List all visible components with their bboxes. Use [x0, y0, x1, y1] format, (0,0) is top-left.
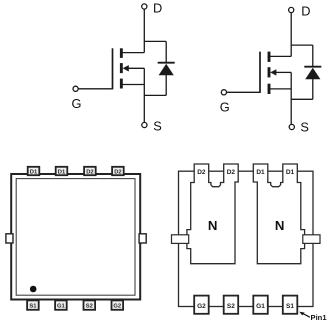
package bottom view (right) — [172, 164, 328, 322]
body arrow Q1 — [123, 65, 129, 71]
pin S1 (bottom 1) — [27, 300, 39, 309]
svg-text:G2: G2 — [197, 303, 206, 310]
gate electrode Q1 — [112, 48, 114, 89]
wire diode bottom branch Q2 — [291, 98, 313, 100]
svg-text:S2: S2 — [86, 304, 93, 310]
svg-text:D1: D1 — [30, 169, 38, 175]
pin G2 (bottom 4) — [112, 300, 124, 309]
body diode Q2 anode wire — [312, 79, 314, 100]
wire source-to-channel lead Q2 — [268, 88, 292, 90]
svg-text:D1: D1 — [58, 169, 66, 175]
terminal D circle Q1 — [142, 4, 147, 9]
wire body lead Q2 — [276, 71, 292, 73]
svg-text:D2: D2 — [227, 169, 236, 176]
left side tab — [6, 234, 13, 243]
pin D2 (top 3) — [84, 167, 96, 175]
drain pad N2 (left, D2) — [187, 164, 238, 264]
svg-text:S: S — [153, 119, 162, 134]
wire diode bottom branch Q1 — [144, 94, 166, 96]
svg-text:D2: D2 — [114, 169, 121, 175]
svg-text:G1: G1 — [256, 303, 265, 310]
pin D1 (top 2) — [56, 167, 68, 175]
svg-text:S1: S1 — [286, 303, 294, 310]
svg-text:N: N — [275, 218, 285, 233]
drain pad N1 (right, D1) — [253, 164, 304, 264]
package top view (left) — [6, 167, 146, 310]
wire body lead Q1 — [128, 67, 144, 69]
body diode Q1 cathode wire — [165, 41, 167, 63]
body diode Q2 cathode wire — [312, 45, 314, 67]
pin D2 (top 4) — [112, 167, 124, 175]
right side tab — [139, 234, 146, 243]
left side tab (bottom view) — [172, 235, 189, 244]
channel bar bottom Q1 — [120, 79, 123, 89]
svg-text:Pin1: Pin1 — [311, 313, 328, 322]
channel bar top Q1 — [120, 48, 123, 58]
body diode Q2 cathode bar — [304, 66, 321, 68]
terminal S circle Q2 — [289, 124, 294, 129]
package body outer outline — [11, 174, 140, 300]
wire source spine Q1 — [143, 68, 145, 122]
wire drain Q1 — [143, 10, 145, 53]
channel bar middle Q1 — [120, 63, 123, 73]
body diode Q1 cathode bar — [158, 62, 175, 64]
body arrow Q2 — [270, 69, 276, 75]
svg-text:S: S — [300, 119, 309, 134]
svg-text:D1: D1 — [256, 169, 265, 176]
wire diode top branch Q2 — [291, 44, 313, 46]
terminal D circle Q2 — [289, 7, 294, 12]
pin1 arrow — [303, 313, 310, 317]
svg-text:N: N — [208, 218, 218, 233]
svg-text:D2: D2 — [197, 169, 206, 176]
pin S1 (bottom 4) — [283, 296, 298, 314]
wire source-to-channel lead Q1 — [121, 84, 144, 86]
svg-text:D: D — [301, 3, 310, 18]
body diode Q1 triangle — [159, 64, 174, 75]
svg-text:G: G — [72, 96, 82, 111]
svg-text:S1: S1 — [29, 304, 37, 310]
pin G1 (bottom 3) — [253, 296, 267, 314]
package bottom outline — [179, 171, 314, 306]
pin S2 (bottom 3) — [84, 300, 96, 309]
right side tab (bottom view) — [303, 235, 320, 244]
svg-text:D1: D1 — [286, 169, 295, 176]
terminal G circle Q2 — [221, 90, 226, 95]
svg-text:G: G — [220, 99, 230, 114]
terminal G circle Q1 — [73, 86, 78, 91]
pin S2 (bottom 2) — [224, 296, 239, 314]
body diode Q1 anode wire — [165, 75, 167, 96]
body diode Q2 triangle — [305, 68, 320, 79]
wire gate lead Q2 — [227, 91, 260, 93]
wire diode top branch Q1 — [144, 40, 166, 42]
svg-text:D: D — [153, 0, 162, 15]
wire drain-to-channel lead Q1 — [121, 52, 144, 54]
transistor Q1 (left N-channel MOSFET) — [72, 0, 175, 133]
pin-1 marker dot — [30, 286, 37, 293]
wire drain-to-channel lead Q2 — [268, 55, 292, 57]
channel bar middle Q2 — [268, 67, 271, 77]
transistor Q2 (right N-channel MOSFET) — [220, 3, 321, 134]
wire gate lead Q1 — [78, 88, 112, 90]
wire source spine Q2 — [290, 72, 292, 124]
package body inner outline — [16, 179, 135, 296]
channel bar top Q2 — [268, 52, 271, 62]
pin G1 (bottom 2) — [55, 300, 67, 309]
svg-text:G1: G1 — [57, 304, 66, 310]
gate electrode Q2 — [259, 52, 261, 93]
svg-text:G2: G2 — [113, 304, 121, 310]
channel bar bottom Q2 — [268, 84, 271, 94]
wire drain Q2 — [290, 13, 292, 57]
pin G2 (bottom 1) — [194, 296, 209, 314]
terminal S circle Q1 — [142, 122, 147, 127]
pin D1 (top 1) — [28, 167, 40, 175]
svg-text:D2: D2 — [86, 169, 93, 175]
svg-text:S2: S2 — [227, 303, 235, 310]
